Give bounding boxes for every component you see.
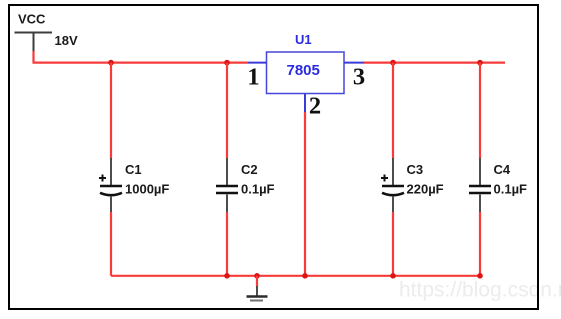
wire C3 upper xyxy=(392,63,394,159)
svg-text:0.1µF: 0.1µF xyxy=(494,182,528,197)
capacitor C4 xyxy=(469,158,527,212)
wire top rail right xyxy=(364,61,505,63)
junction bottom C3 xyxy=(390,273,396,279)
svg-text:C1: C1 xyxy=(125,162,142,177)
svg-text:C4: C4 xyxy=(494,162,511,177)
wire C2 upper xyxy=(226,63,228,159)
junction bottom pin2 xyxy=(302,273,308,279)
svg-text:7805: 7805 xyxy=(287,62,320,79)
svg-text:1: 1 xyxy=(247,64,259,91)
wire C1 lower xyxy=(110,212,112,276)
wire bottom rail xyxy=(111,275,480,277)
svg-text:C2: C2 xyxy=(241,162,258,177)
pin 1 stub xyxy=(248,62,267,64)
wire C3 lower xyxy=(392,212,394,276)
wire pin 2 to bottom rail xyxy=(304,112,306,276)
wire C4 lower xyxy=(479,212,481,276)
op-amp U1 box xyxy=(267,32,345,94)
svg-text:C3: C3 xyxy=(407,162,424,177)
svg-text:3: 3 xyxy=(353,64,365,91)
power VCC xyxy=(15,12,53,52)
capacitor C2 xyxy=(216,158,275,212)
svg-text:1000µF: 1000µF xyxy=(125,182,169,197)
pin 2 stub xyxy=(304,94,306,113)
wire top rail left xyxy=(33,61,249,63)
junction top C1 xyxy=(108,60,114,66)
svg-text:2: 2 xyxy=(309,93,321,120)
svg-text:18V: 18V xyxy=(55,33,78,48)
capacitor C1 xyxy=(99,158,169,212)
svg-text:0.1µF: 0.1µF xyxy=(241,182,275,197)
junction top C2 xyxy=(224,60,230,66)
pin 3 stub xyxy=(344,62,364,64)
wire C1 upper xyxy=(110,63,112,159)
junction top C3 xyxy=(390,60,396,66)
wire ground stub xyxy=(256,276,258,287)
svg-text:VCC: VCC xyxy=(18,12,46,27)
junction bottom C4 xyxy=(477,273,483,279)
ground xyxy=(247,286,268,301)
svg-text:220µF: 220µF xyxy=(407,182,444,197)
capacitor C3 xyxy=(381,158,444,212)
wire C2 lower xyxy=(226,212,228,276)
wire C4 upper xyxy=(479,63,481,159)
junction bottom C2 xyxy=(224,273,230,279)
junction top C4 xyxy=(477,60,483,66)
svg-text:U1: U1 xyxy=(295,32,312,47)
junction bottom ground xyxy=(254,273,260,279)
wire VCC drop xyxy=(32,51,34,63)
svg-text:https://blog.csdn.net: https://blog.csdn.net xyxy=(399,279,561,302)
